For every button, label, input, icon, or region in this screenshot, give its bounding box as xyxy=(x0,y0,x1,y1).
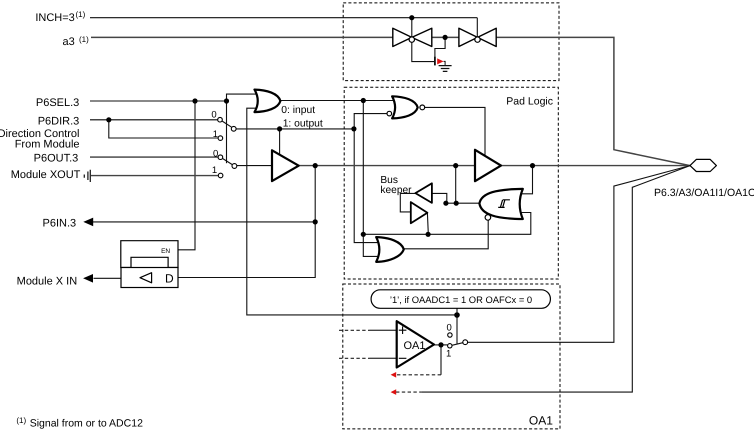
latch clock triangle xyxy=(140,273,152,283)
wire OA1 plus input xyxy=(339,329,370,331)
mux2 contact 0 xyxy=(218,155,223,160)
node rail schmitt branch xyxy=(453,163,458,168)
analog switch box (top dashed box) xyxy=(343,3,559,81)
latch D section xyxy=(121,268,178,288)
transmission gate T1 xyxy=(393,28,432,46)
node direction NOR branch xyxy=(351,126,356,131)
OA1 minus sign xyxy=(399,357,407,359)
svg-text:P6IN.3: P6IN.3 xyxy=(43,217,77,229)
wire direction control from module branch xyxy=(109,120,218,138)
node pad feedback branch xyxy=(530,163,535,168)
node bus keeper tap xyxy=(426,232,431,237)
wire mux1 pole to NOR branch node xyxy=(236,128,354,130)
svg-text:EN: EN xyxy=(161,248,170,255)
wire Module XOUT xyxy=(91,175,219,177)
wire Module X IN xyxy=(94,277,122,279)
node P6IN tap xyxy=(313,219,318,224)
node direction enable branch xyxy=(277,126,282,131)
wire NOR lower input / OR2 upper input xyxy=(354,114,387,243)
P6IN arrow xyxy=(83,218,93,227)
node bus line left xyxy=(361,232,366,237)
wire NOR output to driver enable xyxy=(425,107,485,155)
wire rounded box to mux contact 0 xyxy=(456,308,458,343)
svg-text:(1): (1) xyxy=(16,416,26,425)
node INCH junction xyxy=(409,15,414,20)
wire INCH=3 line xyxy=(90,18,477,37)
wire mux2 pole to buffer xyxy=(237,165,272,167)
wire pad feedback bus line xyxy=(363,213,531,235)
svg-text:keeper: keeper xyxy=(380,185,412,196)
wire schmitt output xyxy=(445,202,480,204)
node OR1 out branch xyxy=(361,98,366,103)
wire driver output to pin xyxy=(501,165,690,167)
svg-text:From Module: From Module xyxy=(15,139,80,151)
bus keeper buffer B2 xyxy=(411,202,428,223)
wire bus keeper loop right xyxy=(432,193,447,203)
mux1 arm xyxy=(222,121,232,127)
svg-text:D: D xyxy=(165,271,174,285)
wire OA1 pole to pin xyxy=(468,166,690,343)
svg-text:1: 1 xyxy=(213,129,218,140)
svg-text:Signal from or to ADC12: Signal from or to ADC12 xyxy=(30,418,143,430)
red arrow OA1 feedback xyxy=(391,372,397,378)
mux1 contact 0 xyxy=(218,117,223,122)
svg-text:1: 1 xyxy=(212,165,217,176)
ground xyxy=(439,66,452,72)
bus keeper buffer B1 xyxy=(415,183,432,203)
schmitt hysteresis symbol xyxy=(498,200,510,208)
wire T1 to ground xyxy=(412,42,435,61)
node a3 switch junction xyxy=(443,35,448,40)
svg-text:Pad Logic: Pad Logic xyxy=(506,96,553,108)
svg-text:Module XOUT: Module XOUT xyxy=(11,169,81,181)
wire node to OR2 lower input xyxy=(363,101,379,257)
wire latch D to pad rail xyxy=(178,166,315,278)
wire OA1 feedback dashed xyxy=(396,374,441,376)
ground switch plate xyxy=(434,57,436,66)
wire P6SEL.3 xyxy=(90,100,227,102)
wire P6DIR.3 xyxy=(90,119,218,121)
node P6SEL mux branch xyxy=(224,98,229,103)
OA1 rounded condition box xyxy=(371,290,550,309)
wire OA1 output xyxy=(434,344,448,346)
node schmitt out bus keeper junction xyxy=(443,201,448,206)
wire OA1 mux arm xyxy=(452,343,463,346)
Pad Logic box xyxy=(344,87,558,279)
wire OR1 output to NOR input xyxy=(280,100,394,102)
svg-text:1: 1 xyxy=(446,349,451,360)
OA1 box xyxy=(343,284,560,429)
wire P6IN.3 xyxy=(93,221,315,223)
OA1 mux contact 1 xyxy=(448,344,452,348)
node P6SEL latch branch xyxy=(192,98,197,103)
wire schmitt upper input from pad xyxy=(519,166,533,194)
svg-text:(1): (1) xyxy=(76,10,86,19)
svg-text:OA1: OA1 xyxy=(403,340,425,352)
NOR gate U2 xyxy=(392,96,418,118)
wire schmitt output up to rail xyxy=(455,166,457,204)
svg-text:P6SEL.3: P6SEL.3 xyxy=(36,97,79,109)
wire a3 node to ground switch xyxy=(435,37,445,56)
pad output driver U4 xyxy=(475,150,501,181)
wire direction to buffer enable xyxy=(279,129,281,155)
op-amp OA1 xyxy=(397,321,434,367)
svg-text:(1): (1) xyxy=(79,35,89,44)
wire OR2 output to schmitt enable xyxy=(404,220,488,249)
OA1 plus sign xyxy=(399,326,407,334)
node OA1 mux enable xyxy=(454,312,460,318)
wire P6OUT.3 xyxy=(90,156,218,158)
latch EN section xyxy=(121,241,178,268)
node schmitt out rail junction xyxy=(454,201,459,206)
red arrow to ground xyxy=(437,58,443,64)
red arrow OA1I1 xyxy=(391,389,397,395)
svg-text:0: input: 0: input xyxy=(281,105,315,116)
NOR input bubble xyxy=(387,111,392,116)
wire OR1 lower input down to OA1 mux xyxy=(247,108,457,315)
schmitt enable bubble xyxy=(485,215,491,221)
NOR output bubble xyxy=(420,105,425,110)
svg-text:P6OUT.3: P6OUT.3 xyxy=(34,153,79,165)
svg-text:1: output: 1: output xyxy=(283,118,323,129)
node OA1 output xyxy=(438,342,443,347)
mux1 contact 1 xyxy=(218,136,223,141)
wire P6SEL to OR1 input xyxy=(227,94,258,101)
svg-text:0: 0 xyxy=(213,148,218,159)
wire bus keeper loop left xyxy=(400,193,415,212)
svg-text:Module X IN: Module X IN xyxy=(17,276,78,288)
ground stem xyxy=(444,61,446,65)
transmission gate T2 xyxy=(459,28,496,46)
node P6DIR branch xyxy=(106,117,111,122)
XOUT clock glyph xyxy=(84,170,90,182)
wire OA1I1 to pin xyxy=(421,166,690,393)
mux2 contact 1 xyxy=(218,173,223,178)
mux2 arm xyxy=(222,158,232,164)
mux1 pole xyxy=(231,126,236,131)
wire OA1 feedback vertical xyxy=(440,345,442,375)
svg-text:a3: a3 xyxy=(63,36,75,48)
wire OA1 minus input xyxy=(339,357,370,359)
svg-text:P6.3/A3/OA1I1/OA1O: P6.3/A3/OA1I1/OA1O xyxy=(654,187,754,199)
svg-text:INCH=3: INCH=3 xyxy=(35,12,74,24)
svg-text:’1’, if OAADC1 = 1 OR OAFCx =: ’1’, if OAADC1 = 1 OR OAFCx = 0 xyxy=(390,294,532,305)
wire a3 analog rail xyxy=(91,37,690,165)
svg-text:0: 0 xyxy=(211,110,216,121)
OR gate OR1 (select/input logic) xyxy=(255,90,281,113)
svg-text:OA1: OA1 xyxy=(529,414,553,428)
direction buffer U3 xyxy=(272,150,299,181)
node rail latch branch xyxy=(313,163,318,168)
wire mux select xyxy=(226,101,228,163)
OR gate OR2 (input enable) xyxy=(376,237,404,262)
mux2 pole xyxy=(232,164,237,169)
OA1 mux pole xyxy=(463,340,468,345)
pin hexagon P6.3 xyxy=(690,159,716,171)
wire bus keeper output diagonal xyxy=(426,213,429,234)
svg-text:0: 0 xyxy=(447,322,452,333)
wire pad drive rail xyxy=(299,165,475,167)
Module X IN arrow xyxy=(83,274,93,283)
schmitt trigger input gate U5 xyxy=(479,189,522,219)
svg-text:P6DIR.3: P6DIR.3 xyxy=(38,116,80,128)
wire OA1I1 dashed xyxy=(396,391,421,393)
OA1 mux contact 0 xyxy=(448,333,452,337)
wire P6SEL to latch EN xyxy=(178,101,195,250)
